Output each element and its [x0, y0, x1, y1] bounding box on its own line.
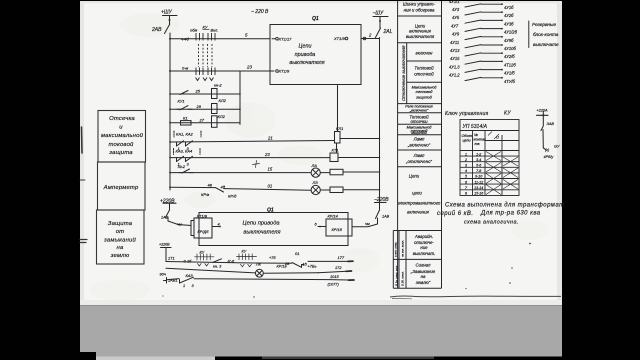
svg-text:Резервные: Резервные	[532, 22, 556, 27]
svg-text:К1: К1	[183, 115, 188, 120]
svg-text:0-м: 0-м	[182, 66, 189, 71]
svg-text:Тепловой: Тепловой	[414, 66, 434, 71]
svg-text:на: на	[421, 274, 426, 279]
svg-text:КТ1: КТ1	[332, 148, 339, 153]
svg-text:2: 2	[464, 158, 467, 162]
svg-text:КЛ1: КЛ1	[336, 126, 343, 131]
svg-text:2АL: 2АL	[383, 29, 393, 35]
svg-text:КР/в: КР/в	[201, 192, 209, 197]
svg-text:чм: чм	[365, 221, 370, 226]
svg-text:5: 5	[465, 175, 467, 179]
svg-text:и: и	[119, 125, 123, 131]
svg-text:КУ: КУ	[242, 249, 247, 254]
svg-text:47: 47	[221, 185, 226, 190]
svg-text:защита: защита	[108, 150, 133, 156]
svg-text:−220В: −220В	[374, 197, 389, 203]
svg-text:Б′-6: Б′-6	[228, 259, 236, 264]
svg-text:1: 1	[183, 283, 185, 288]
svg-text:4У1.3: 4У1.3	[449, 64, 460, 69]
svg-text:блок-конта: блок-конта	[533, 32, 559, 37]
svg-text:11-12: 11-12	[474, 180, 483, 184]
svg-text:4У2/б: 4У2/б	[504, 54, 515, 59]
svg-text:177: 177	[338, 255, 345, 260]
svg-text:землю: землю	[110, 253, 130, 259]
svg-text:4У1/2б: 4У1/2б	[504, 30, 518, 35]
svg-text:28: 28	[284, 261, 290, 266]
svg-text:на: на	[117, 245, 124, 251]
svg-text:1АВ: 1АВ	[161, 216, 169, 220]
svg-text:4У13: 4У13	[450, 48, 460, 53]
svg-text:01: 01	[295, 251, 299, 256]
svg-text:Для тр-ра 630 ква: Для тр-ра 630 ква	[480, 211, 541, 217]
svg-text:1: 1	[178, 146, 180, 151]
svg-text:цепи: цепи	[463, 139, 471, 143]
svg-text:землю“: землю“	[415, 280, 431, 285]
svg-text:электромагнитного: электромагнитного	[398, 201, 441, 206]
svg-text:ЗАВ: ЗАВ	[547, 122, 555, 126]
svg-text:ния и обогрева: ния и обогрева	[404, 8, 435, 13]
svg-text:КА1, КА2: КА1, КА2	[176, 132, 193, 137]
svg-text:Схема выполнена для трансформа: Схема выполнена для трансформат	[445, 203, 565, 209]
svg-text:4Т12б: 4Т12б	[504, 62, 516, 67]
svg-text:172: 172	[335, 265, 342, 270]
svg-text:выключателя: выключателя	[289, 60, 324, 66]
svg-text:„отключено“: „отключено“	[405, 159, 433, 164]
svg-text:Ламп: Ламп	[413, 153, 425, 158]
svg-text:− 220 В: − 220 В	[251, 9, 269, 15]
svg-text:4: 4	[465, 169, 467, 173]
svg-text:максимальной: максимальной	[101, 132, 144, 139]
svg-text:обм: обм	[190, 28, 197, 33]
svg-text:на вкл. выкл.: на вкл. выкл.	[401, 240, 405, 257]
svg-text:+7Бь: +7Бь	[308, 264, 317, 269]
svg-text:тепловой: тепловой	[416, 90, 433, 94]
svg-text:ХТ1/8: ХТ1/8	[196, 213, 208, 218]
svg-text:Цепи: Цепи	[298, 44, 311, 50]
svg-text:Q1: Q1	[312, 16, 319, 22]
svg-text:+220В: +220В	[160, 199, 175, 205]
svg-text:Ламп: Ламп	[413, 137, 425, 142]
svg-text:ЛА: ЛА	[311, 163, 318, 168]
svg-text:ХЬ2: ХЬ2	[177, 164, 186, 169]
svg-text:контак: контак	[474, 138, 487, 142]
svg-text:3-4: 3-4	[476, 158, 481, 162]
svg-text:4У1.2: 4У1.2	[449, 73, 460, 78]
svg-text:ЛЗ: ЛЗ	[312, 180, 319, 185]
svg-text:КАЗ: КАЗ	[186, 273, 194, 278]
svg-text:0-1б: 0-1б	[184, 258, 193, 263]
svg-text:90ч: 90ч	[160, 272, 166, 277]
svg-text:ЛК: ЛК	[255, 262, 262, 267]
svg-text:5-6: 5-6	[476, 164, 481, 168]
svg-text:4У15: 4У15	[450, 56, 460, 61]
svg-text:отсечки: отсечки	[410, 119, 428, 124]
svg-text:УП 5314/А: УП 5314/А	[463, 124, 488, 130]
svg-text:выключат.: выключат.	[413, 251, 435, 256]
svg-text:15-16: 15-16	[474, 192, 483, 196]
svg-text:4У1/б: 4У1/б	[504, 71, 515, 76]
svg-text:4У1/1: 4У1/1	[449, 0, 460, 4]
svg-text:а вкл. опер.: а вкл. опер.	[394, 242, 398, 257]
svg-text:та: та	[475, 142, 480, 146]
svg-text:кн-2: кн-2	[214, 83, 222, 88]
svg-text:−ШУ: −ШУ	[373, 11, 385, 17]
svg-text:КУ: КУ	[203, 25, 208, 30]
svg-text:привода: привода	[295, 52, 316, 58]
svg-text:Цепи привода: Цепи привода	[242, 221, 279, 227]
svg-text:Цепи: Цепи	[409, 174, 420, 179]
svg-text:токовой: токовой	[108, 141, 134, 148]
svg-text:23: 23	[246, 65, 252, 70]
svg-text:25: 25	[195, 89, 201, 94]
svg-text:1015: 1015	[330, 274, 339, 279]
svg-text:4Рб/у: 4Рб/у	[544, 155, 555, 159]
svg-text:Отсечка: Отсечка	[109, 116, 135, 122]
svg-text:Ключ управления: Ключ управления	[445, 111, 488, 117]
svg-text:ХТ1/9: ХТ1/9	[333, 36, 345, 41]
svg-text:ч-4б: ч-4б	[181, 37, 190, 42]
svg-text:3: 3	[465, 164, 467, 168]
svg-text:4У11: 4У11	[450, 40, 459, 45]
svg-text:4У1б: 4У1б	[504, 5, 514, 10]
svg-text:7-8: 7-8	[476, 169, 481, 173]
svg-text:№: №	[474, 133, 478, 137]
svg-text:КР/1б: КР/1б	[332, 227, 343, 232]
svg-text:КЛ2: КЛ2	[219, 98, 227, 103]
svg-text:КЛ2: КЛ2	[218, 114, 226, 119]
svg-text:защитой: защитой	[415, 96, 432, 100]
svg-text:1АВ: 1АВ	[382, 215, 390, 219]
svg-text:01: 01	[268, 183, 273, 188]
svg-text:Амперметр: Амперметр	[103, 185, 139, 191]
svg-text:Вкл.: Вкл.	[211, 28, 219, 33]
svg-text:защитой: защитой	[410, 131, 427, 135]
svg-text:Обозн.: Обозн.	[462, 134, 473, 138]
svg-text:КУ1: КУ1	[178, 98, 185, 103]
svg-text:GУ: GУ	[554, 145, 560, 149]
svg-text:выключателя: выключателя	[406, 34, 435, 39]
svg-text:выключате: выключате	[533, 42, 559, 47]
svg-text:4У9: 4У9	[452, 32, 460, 37]
svg-text:29: 29	[196, 104, 202, 109]
svg-text:КР/Дб: КР/Дб	[198, 229, 210, 234]
svg-text:чм: чм	[177, 222, 182, 227]
svg-text:цепи: цепи	[412, 191, 422, 196]
svg-text:Отключение выключателя: Отключение выключателя	[401, 45, 406, 101]
svg-text:1: 1	[465, 152, 467, 156]
svg-text:(1077): (1077)	[328, 282, 340, 287]
svg-text:+220А: +220А	[537, 109, 549, 113]
svg-text:Б 2б. откл.: Б 2б. откл.	[401, 271, 405, 286]
svg-text:серий 6 кВ.: серий 6 кВ.	[437, 210, 473, 217]
svg-text:13-14: 13-14	[474, 186, 483, 190]
svg-text:6: 6	[465, 180, 467, 184]
svg-text:4У5: 4У5	[452, 15, 460, 20]
svg-text:Аварийн.: Аварийн.	[414, 234, 433, 239]
svg-text:КР/14: КР/14	[328, 214, 339, 219]
svg-text:8: 8	[465, 192, 467, 196]
svg-text:1АВ1: 1АВ1	[168, 278, 178, 283]
svg-text:21: 21	[267, 136, 273, 141]
svg-text:от: от	[116, 229, 125, 235]
svg-text:4У2б: 4У2б	[504, 13, 514, 18]
svg-text:4У3б: 4У3б	[504, 21, 514, 26]
svg-text:схема аналогична.: схема аналогична.	[464, 220, 519, 226]
svg-text:48: 48	[208, 183, 213, 188]
svg-text:О: О	[496, 135, 499, 140]
svg-text:КУ: КУ	[504, 110, 511, 116]
svg-text:Защита: Защита	[108, 221, 133, 227]
svg-text:ние: ние	[420, 245, 428, 250]
svg-text:ХТ1/17: ХТ1/17	[278, 36, 293, 41]
svg-text:+75: +75	[269, 255, 276, 260]
svg-text:9-10: 9-10	[475, 175, 482, 179]
svg-text:4У3: 4У3	[452, 7, 460, 12]
svg-text:В 2в. опер. ток: В 2в. опер. ток	[395, 265, 399, 286]
svg-text:выключателя: выключателя	[243, 230, 280, 236]
svg-text:кн. 3: кн. 3	[213, 263, 222, 268]
svg-text:+220В: +220В	[159, 243, 170, 247]
svg-text:Q1: Q1	[267, 208, 274, 214]
svg-text:включен: включен	[416, 51, 434, 56]
svg-text:4У9б: 4У9б	[504, 38, 514, 43]
svg-text:включения: включения	[407, 210, 429, 215]
svg-text:„включено“: „включено“	[409, 109, 429, 113]
svg-text:замыканий: замыканий	[103, 237, 136, 244]
svg-text:4У7: 4У7	[451, 23, 459, 28]
svg-text:КР/д: КР/д	[228, 194, 237, 199]
svg-text:включения: включения	[409, 29, 431, 34]
svg-text:КУ: КУ	[200, 250, 205, 255]
svg-text:1Т1: 1Т1	[168, 256, 175, 261]
svg-text:отсечкой: отсечкой	[414, 72, 434, 77]
svg-text:+ШУ: +ШУ	[161, 10, 173, 16]
svg-text:23: 23	[264, 152, 270, 157]
svg-text:1-2: 1-2	[476, 152, 481, 156]
svg-text:(к): (к)	[545, 148, 550, 152]
svg-text:ХТ1/9: ХТ1/9	[278, 69, 290, 74]
svg-text:Сигнал: Сигнал	[416, 263, 431, 268]
svg-text:„включено“: „включено“	[407, 143, 431, 148]
svg-text:27: 27	[199, 117, 205, 122]
svg-text:15: 15	[268, 167, 273, 172]
svg-text:Шинки управле-: Шинки управле-	[403, 2, 436, 7]
svg-text:4ТУ/б: 4ТУ/б	[504, 79, 516, 84]
svg-text:4У10б: 4У10б	[504, 46, 516, 51]
svg-text:2АВ: 2АВ	[151, 27, 162, 33]
svg-text:Максимальной: Максимальной	[412, 86, 437, 90]
